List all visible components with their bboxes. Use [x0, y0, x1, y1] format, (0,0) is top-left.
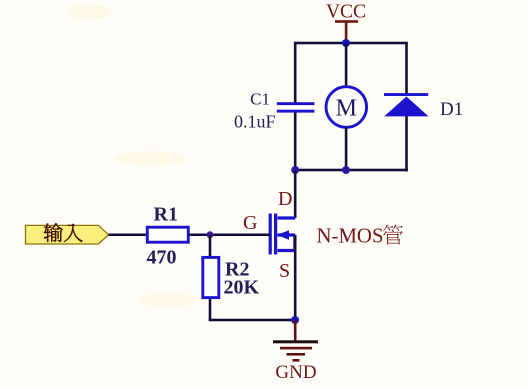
svg-text:C1: C1 — [250, 90, 270, 109]
svg-text:D: D — [278, 188, 292, 210]
svg-text:G: G — [243, 212, 257, 234]
wire R2 top lead — [209, 235, 212, 256]
wire drain — [294, 170, 297, 218]
wire capacitor branch lower lead — [294, 112, 297, 171]
resistor R1 — [147, 227, 188, 242]
junction VCC node — [342, 39, 350, 47]
wire diode lower lead — [405, 116, 408, 171]
wire source — [294, 235, 297, 320]
wire motor upper lead — [345, 43, 348, 87]
annotation N-MOS tube — [317, 225, 403, 248]
junction left — [291, 166, 299, 174]
power VCC — [326, 2, 366, 44]
motor M1 — [326, 87, 367, 128]
junction source node — [291, 316, 299, 324]
svg-text:0.1uF: 0.1uF — [234, 112, 276, 132]
junction gate node — [207, 231, 214, 238]
svg-text:20K: 20K — [224, 277, 260, 299]
wire diode upper lead — [405, 43, 408, 95]
diode D1 — [384, 93, 429, 116]
svg-text:S: S — [279, 260, 290, 282]
wire motor lower lead — [345, 128, 348, 171]
wire capacitor branch upper lead — [294, 43, 297, 103]
svg-text:470: 470 — [147, 247, 177, 269]
svg-text:N-MOS: N-MOS — [317, 225, 384, 248]
svg-text:R1: R1 — [154, 204, 178, 226]
ground — [273, 320, 318, 362]
svg-text:GND: GND — [275, 362, 316, 383]
wire top rail — [294, 42, 408, 45]
svg-text:VCC: VCC — [326, 2, 366, 23]
transistor Q1 N-MOSFET — [270, 214, 295, 255]
svg-text:D1: D1 — [440, 99, 463, 120]
wire R2 bottom lead — [209, 299, 212, 320]
arrow MOSFET body — [277, 230, 289, 239]
capacitor C1 — [277, 102, 315, 112]
wire R1 to gate — [190, 234, 270, 237]
wire R2 to source — [209, 319, 296, 322]
resistor R2 — [203, 257, 219, 297]
wire input — [109, 234, 148, 237]
svg-text:M: M — [336, 96, 357, 122]
junction motor-source node — [342, 166, 350, 174]
port input flag — [26, 223, 109, 244]
wire bottom rail — [294, 169, 408, 172]
